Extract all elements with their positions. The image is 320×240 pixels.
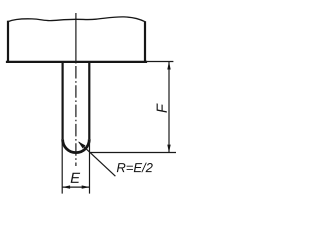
break line (wavy top edge of plate) <box>8 17 145 22</box>
arrowhead radius leader <box>78 141 86 148</box>
arrowhead F bottom <box>167 145 170 153</box>
extension line E right (below right wall) <box>89 139 91 193</box>
pin rounded end arc (R=E/2) <box>63 139 90 152</box>
dimension line E <box>63 186 90 188</box>
centerline (vertical dash-dot axis) <box>75 13 77 166</box>
extension line F top <box>146 61 173 63</box>
arrowhead E left <box>62 185 70 188</box>
dimension line F <box>168 62 170 152</box>
leader line for radius callout <box>79 142 115 176</box>
arrowhead F top <box>167 62 170 70</box>
extension line F bottom <box>90 152 176 154</box>
label E <box>71 173 81 183</box>
label F (rotated 90 deg) <box>157 103 167 112</box>
arrowhead E right <box>82 185 90 188</box>
label R=E/2 <box>117 163 153 173</box>
extension line E left (below left wall) <box>61 139 63 193</box>
plate body outline (left, bottom, right edges) <box>7 22 146 62</box>
pin right wall <box>88 62 90 139</box>
pin left wall <box>61 62 63 139</box>
